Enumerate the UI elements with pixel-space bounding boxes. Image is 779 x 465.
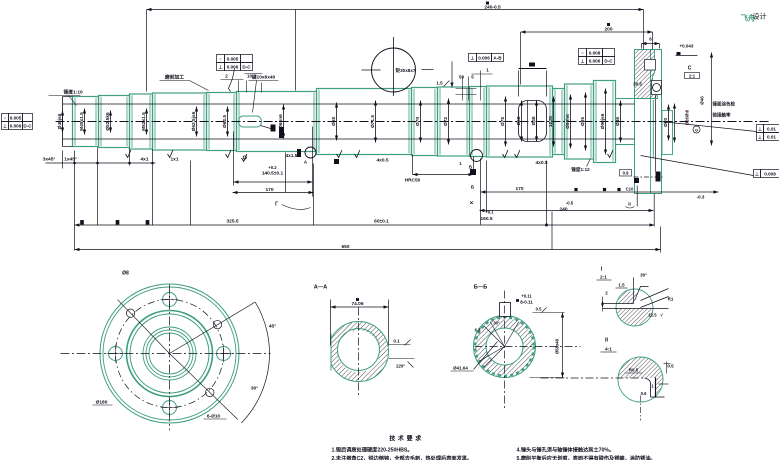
svg-text:325.5: 325.5 bbox=[226, 219, 238, 225]
svg-text:R0.5: R0.5 bbox=[629, 368, 639, 373]
svg-text:D-C: D-C bbox=[242, 65, 251, 70]
svg-text:45°: 45° bbox=[269, 324, 276, 330]
svg-text:1x1: 1x1 bbox=[170, 157, 178, 163]
svg-text:12JS: 12JS bbox=[548, 115, 554, 127]
svg-text:锤面涂色检: 锤面涂色检 bbox=[713, 101, 736, 108]
svg-text:1x45°: 1x45° bbox=[64, 157, 77, 163]
svg-text:Ø70: Ø70 bbox=[415, 117, 421, 126]
svg-text:0.006: 0.006 bbox=[589, 59, 601, 64]
svg-text:验接触率: 验接触率 bbox=[713, 112, 731, 119]
svg-text:0.5: 0.5 bbox=[667, 364, 674, 369]
svg-text:0.005: 0.005 bbox=[10, 116, 22, 121]
svg-text:240-0.5: 240-0.5 bbox=[484, 5, 501, 11]
svg-text:○: ○ bbox=[219, 57, 222, 62]
svg-text:4x0.5: 4x0.5 bbox=[376, 158, 388, 164]
svg-text:30°: 30° bbox=[251, 386, 258, 392]
svg-text:M52x1.5: M52x1.5 bbox=[141, 112, 147, 131]
svg-text:2:1: 2:1 bbox=[600, 275, 607, 281]
svg-text:Г: Г bbox=[275, 202, 278, 208]
svg-text:3x45°: 3x45° bbox=[43, 157, 56, 163]
svg-text:12.5: 12.5 bbox=[648, 313, 657, 318]
svg-text:Ø62.5: Ø62.5 bbox=[222, 115, 228, 128]
svg-text:30°: 30° bbox=[640, 273, 647, 278]
svg-text:锤度1:12: 锤度1:12 bbox=[571, 166, 590, 173]
svg-text:4x0.5: 4x0.5 bbox=[535, 160, 547, 166]
svg-text:Ø65n6: Ø65n6 bbox=[278, 114, 284, 129]
svg-text:2:1: 2:1 bbox=[689, 74, 696, 79]
svg-text:0.5: 0.5 bbox=[536, 307, 542, 312]
svg-text:4.锤头与锤孔须与轴锤体接触达到土70%。: 4.锤头与锤孔须与轴锤体接触达到土70%。 bbox=[517, 446, 615, 454]
svg-text:D-C: D-C bbox=[23, 124, 32, 129]
svg-text:II: II bbox=[605, 338, 609, 344]
svg-text:HRC50: HRC50 bbox=[405, 178, 421, 184]
svg-text:50: 50 bbox=[459, 75, 465, 80]
svg-text:Ø62.5js6: Ø62.5js6 bbox=[191, 111, 197, 131]
svg-text:30°: 30° bbox=[493, 321, 500, 326]
svg-text:键10x8x40: 键10x8x40 bbox=[251, 74, 276, 81]
svg-text:Ø80h6: Ø80h6 bbox=[565, 114, 571, 129]
svg-text:锤度1:10: 锤度1:10 bbox=[64, 89, 84, 96]
svg-text:200: 200 bbox=[604, 27, 612, 33]
svg-text:Ø75: Ø75 bbox=[500, 117, 506, 126]
svg-text:0.006: 0.006 bbox=[10, 124, 22, 129]
svg-text:0.6: 0.6 bbox=[641, 391, 647, 396]
svg-text:Ø48js6: Ø48js6 bbox=[57, 113, 63, 129]
svg-text:✕: ✕ bbox=[469, 201, 473, 207]
svg-text:+0.11: +0.11 bbox=[521, 294, 532, 299]
svg-text:Б—Б: Б—Б bbox=[474, 285, 487, 291]
svg-text:M45x1.5: M45x1.5 bbox=[79, 112, 85, 131]
svg-text:R1: R1 bbox=[668, 297, 674, 302]
svg-text:4x1.5: 4x1.5 bbox=[286, 153, 298, 158]
svg-text:Ø41.64: Ø41.64 bbox=[453, 366, 468, 371]
svg-text:240: 240 bbox=[559, 207, 567, 213]
svg-text:-0.5: -0.5 bbox=[566, 201, 574, 206]
svg-text:C10: C10 bbox=[626, 187, 634, 192]
svg-text:1.5: 1.5 bbox=[618, 283, 625, 288]
svg-text:А—А: А—А bbox=[314, 285, 327, 291]
svg-text:74.06: 74.06 bbox=[351, 301, 363, 307]
svg-text:+0.1: +0.1 bbox=[485, 210, 494, 215]
svg-text:0.008: 0.008 bbox=[764, 172, 776, 177]
svg-text:170: 170 bbox=[515, 186, 523, 192]
svg-text:Ø58x48: Ø58x48 bbox=[555, 338, 560, 354]
svg-text:Ø68: Ø68 bbox=[331, 117, 337, 126]
svg-text:Ø48: Ø48 bbox=[531, 116, 537, 125]
svg-text:650: 650 bbox=[341, 244, 349, 250]
svg-text:0.01: 0.01 bbox=[767, 135, 776, 140]
svg-text:○: ○ bbox=[581, 51, 584, 56]
svg-text:+0.043: +0.043 bbox=[680, 44, 694, 49]
svg-text:170: 170 bbox=[265, 187, 273, 193]
svg-text:4x1: 4x1 bbox=[140, 157, 148, 163]
svg-text:Ø260h6: Ø260h6 bbox=[685, 109, 690, 125]
svg-text:0.005: 0.005 bbox=[227, 57, 239, 62]
svg-text:0.006: 0.006 bbox=[478, 56, 490, 61]
svg-text:技 术 要 求: 技 术 要 求 bbox=[389, 435, 422, 443]
svg-text:0.006: 0.006 bbox=[227, 65, 239, 70]
svg-text:10: 10 bbox=[247, 74, 253, 79]
svg-text:4:1: 4:1 bbox=[605, 347, 612, 353]
svg-text:30.5: 30.5 bbox=[633, 82, 642, 87]
svg-text:设计: 设计 bbox=[753, 12, 767, 21]
svg-text:Ø85: Ø85 bbox=[580, 117, 586, 126]
svg-text:0.1: 0.1 bbox=[393, 339, 400, 344]
svg-text:Ø71.5: Ø71.5 bbox=[370, 115, 376, 128]
svg-text:Ø8: Ø8 bbox=[122, 271, 129, 277]
svg-text:+0.2: +0.2 bbox=[268, 165, 277, 170]
svg-text:C: C bbox=[688, 66, 692, 72]
svg-text:A-B: A-B bbox=[493, 56, 502, 61]
svg-text:Ø72: Ø72 bbox=[443, 117, 449, 126]
svg-text:D-C: D-C bbox=[604, 59, 613, 64]
svg-text:Ø180: Ø180 bbox=[96, 400, 108, 406]
svg-text:140.5±0.1: 140.5±0.1 bbox=[262, 171, 284, 177]
svg-text:Ø46: Ø46 bbox=[700, 96, 705, 105]
svg-text:160.5: 160.5 bbox=[481, 216, 493, 222]
svg-text:G: G bbox=[695, 128, 698, 133]
svg-text:6.3: 6.3 bbox=[475, 328, 481, 333]
svg-text:0.9: 0.9 bbox=[623, 171, 629, 176]
svg-text:6-Ø10: 6-Ø10 bbox=[207, 414, 221, 420]
svg-text:Ø46: Ø46 bbox=[615, 117, 621, 126]
svg-text:○: ○ bbox=[4, 116, 7, 121]
svg-text:120°: 120° bbox=[396, 364, 406, 369]
svg-text:60±0.1: 60±0.1 bbox=[374, 219, 389, 225]
svg-text:-0.3: -0.3 bbox=[697, 195, 705, 200]
svg-text:Ø52.5k6: Ø52.5k6 bbox=[105, 112, 111, 131]
svg-text:矩30x8x7: 矩30x8x7 bbox=[395, 67, 416, 74]
svg-text:0.01: 0.01 bbox=[767, 127, 776, 132]
svg-text:磨前加工: 磨前加工 bbox=[164, 74, 184, 81]
svg-text:1.5: 1.5 bbox=[436, 81, 443, 86]
svg-text:Ø58: Ø58 bbox=[516, 116, 522, 125]
svg-text:8-0.11: 8-0.11 bbox=[520, 300, 533, 305]
svg-text:0.008: 0.008 bbox=[589, 51, 601, 56]
svg-text:II: II bbox=[628, 202, 631, 207]
svg-text:Ø90js6: Ø90js6 bbox=[600, 113, 606, 129]
svg-text:1.锻后调质处理硬度220-250HBS。: 1.锻后调质处理硬度220-250HBS。 bbox=[332, 446, 413, 454]
